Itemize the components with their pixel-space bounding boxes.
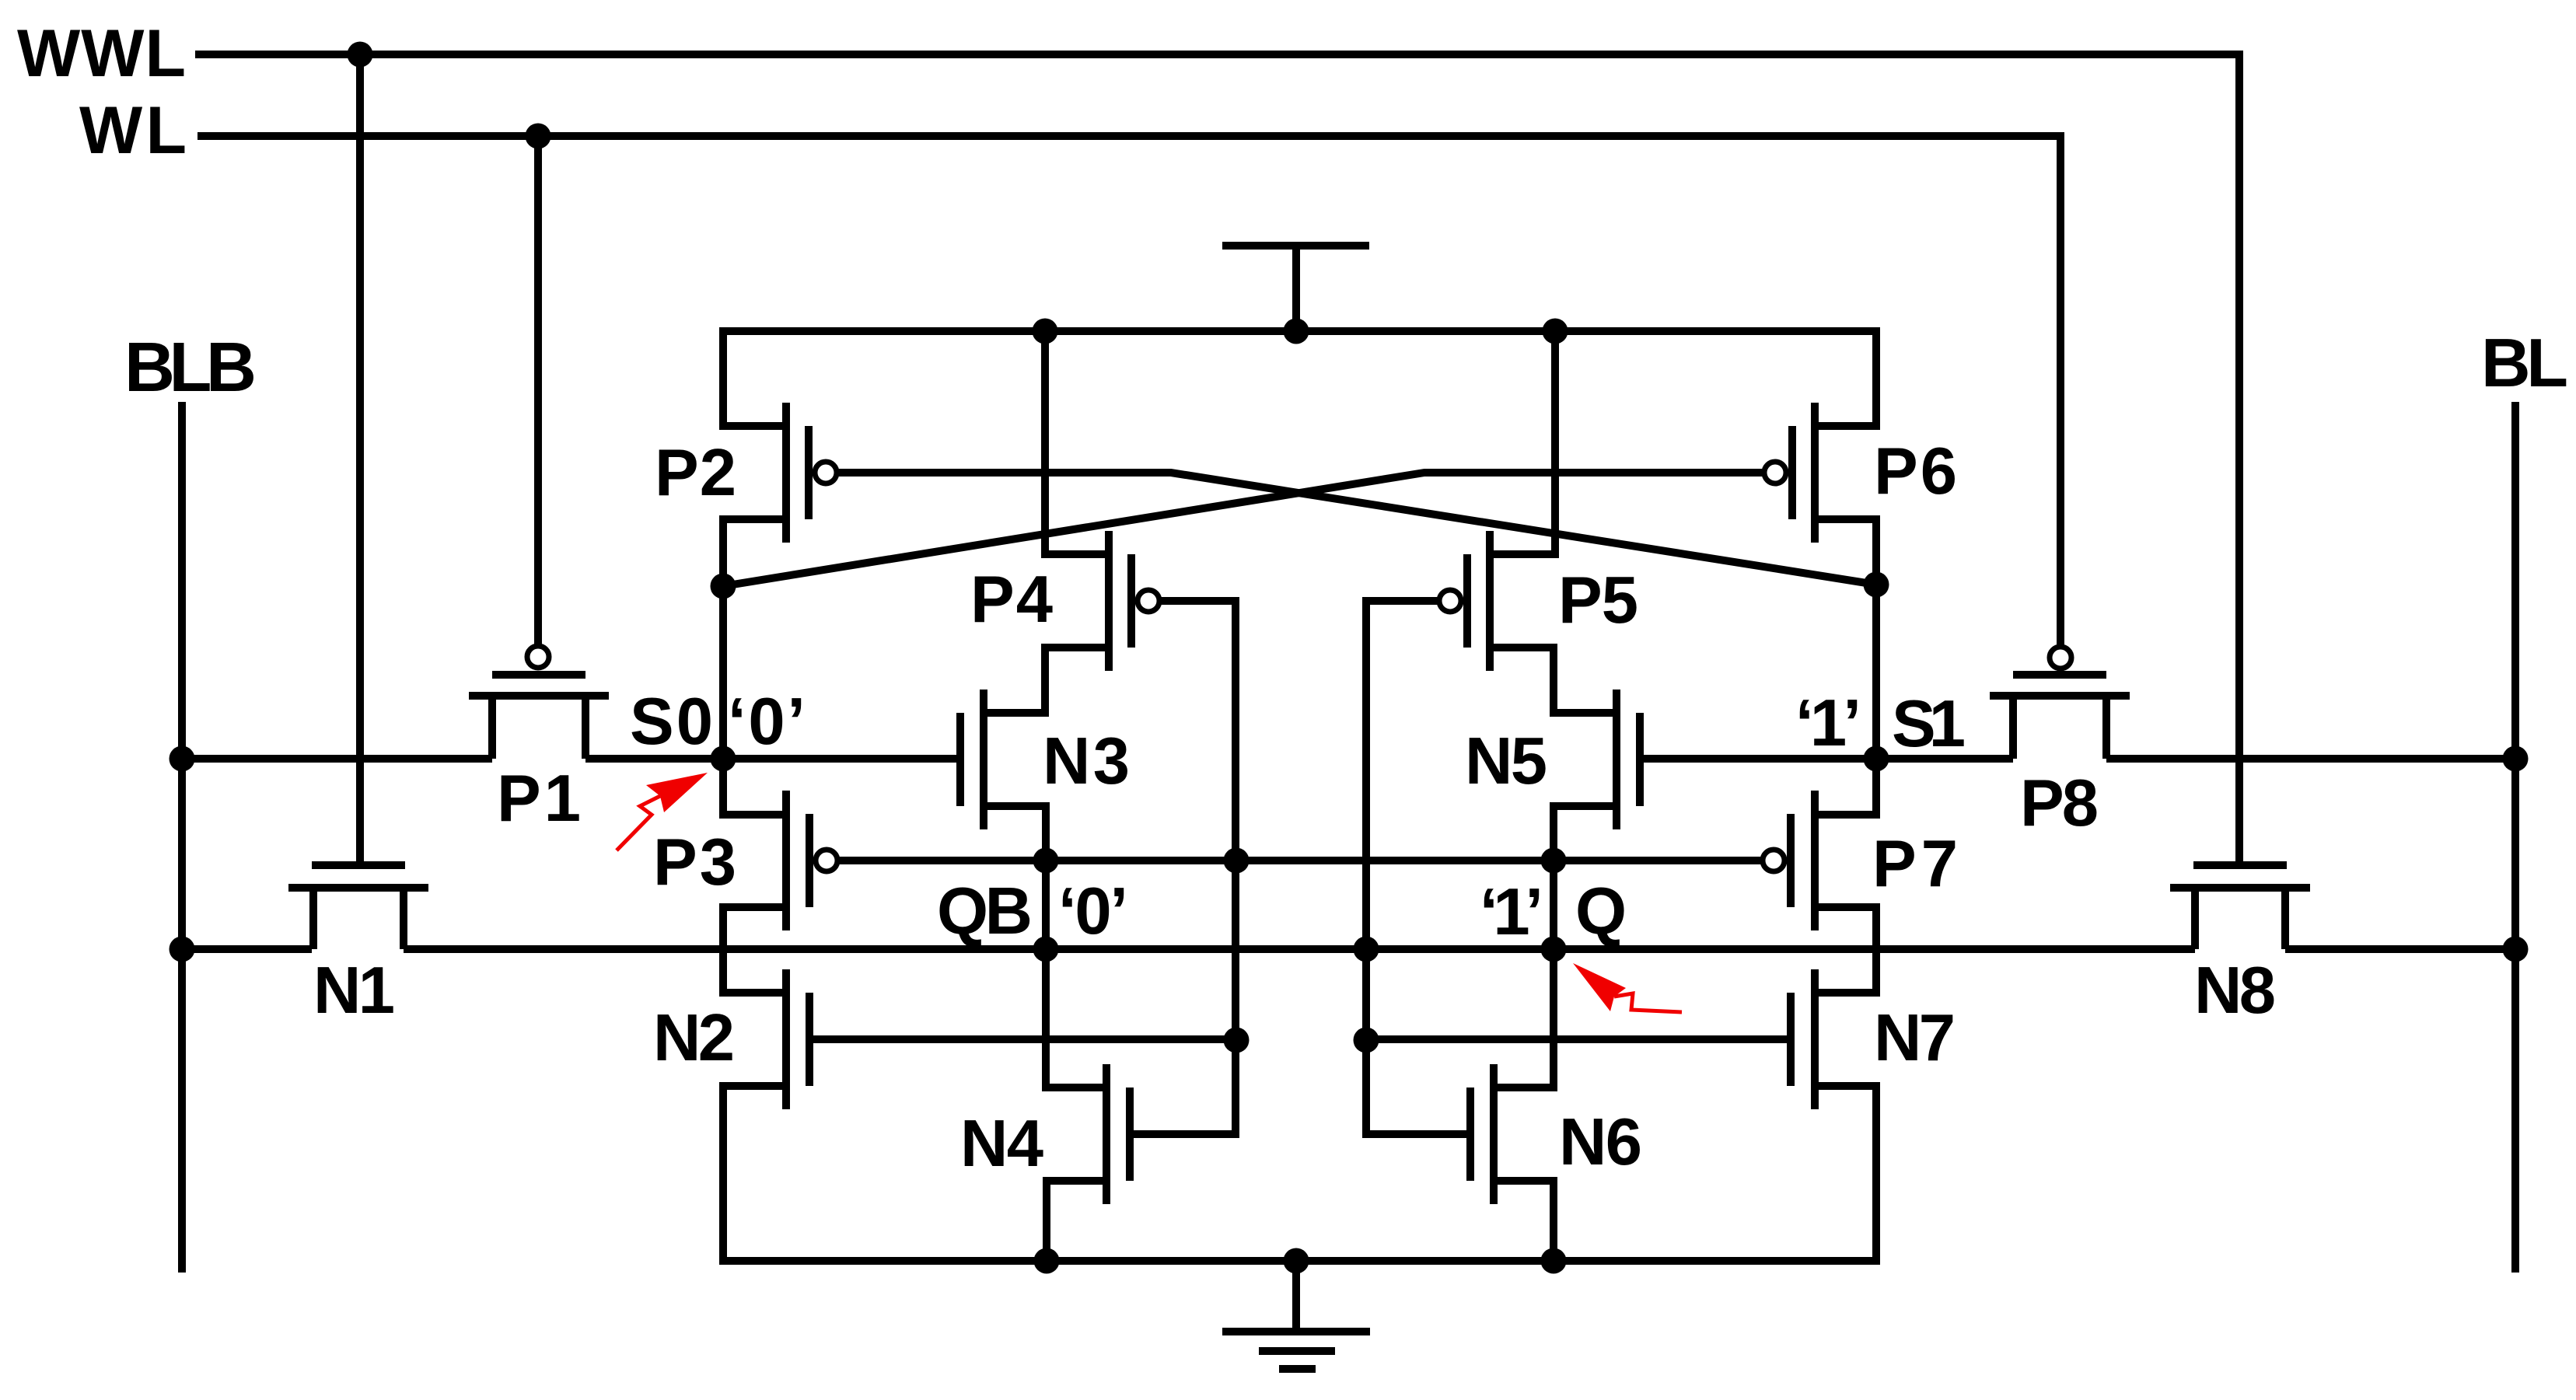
wire BLB bitline — [178, 402, 186, 1273]
svg-text:N8: N8 — [2194, 954, 2276, 1028]
wire P6 drain to S1 to P7 source — [1815, 519, 1876, 815]
svg-text:‘1’: ‘1’ — [1480, 875, 1543, 949]
wire BLB to P1 — [182, 755, 492, 763]
wire BLB to N1 — [182, 945, 312, 953]
svg-text:P8: P8 — [2020, 766, 2099, 840]
svg-text:N7: N7 — [1874, 1001, 1956, 1075]
transistor P3 — [786, 791, 809, 930]
junction rail-P5 — [1543, 319, 1568, 344]
node S0 — [711, 746, 736, 772]
junction P2 drain node — [711, 574, 736, 599]
soft error strike arrow at Q — [1573, 963, 1626, 1011]
junction WL-P1 — [526, 124, 551, 149]
wire N3 drain to QB node to N4 — [984, 806, 1106, 1088]
transistor N8 — [2170, 865, 2310, 949]
svg-text:‘0’: ‘0’ — [1058, 875, 1128, 948]
wire P3 drain to N2 source — [723, 907, 786, 993]
arrow tail zigzag at Q — [1614, 993, 1682, 1012]
transistor P1 — [469, 675, 609, 759]
wire P1 to S0 to N3 gate — [585, 755, 960, 763]
wire VDD rail to P4 source — [1045, 331, 1109, 554]
transistor N1 — [288, 865, 428, 949]
junction rail-VDD — [1284, 319, 1309, 344]
svg-text:Q: Q — [1575, 875, 1627, 948]
transistor P7 — [1791, 791, 1815, 930]
bubble P1 gate — [527, 646, 549, 668]
svg-text:‘0’: ‘0’ — [728, 685, 806, 759]
svg-text:P6: P6 — [1874, 435, 1957, 508]
wire P4 drain to N3 source — [984, 648, 1109, 713]
svg-text:‘1’: ‘1’ — [1795, 686, 1861, 760]
junction N4-ground rail — [1034, 1248, 1060, 1274]
junction P6 drain node — [1864, 572, 1889, 598]
wire N5 gate to S1 to P8 — [1640, 755, 2013, 763]
wire P2 drain to S0 to P3 source — [723, 519, 786, 815]
soft error strike arrow at S0 — [646, 773, 708, 812]
wire P5 gate to N6 gate — [1366, 601, 1470, 1134]
junction BL-Q row — [2503, 937, 2529, 962]
svg-text:P7: P7 — [1872, 827, 1958, 901]
transistor N6 — [1470, 1064, 1494, 1204]
transistor P6 — [1792, 403, 1815, 543]
wire P3 gate to P7 gate row — [837, 857, 1763, 864]
svg-text:WL: WL — [79, 93, 187, 168]
wire WWL — [195, 54, 2239, 865]
junction Q row center-right — [1354, 937, 1379, 962]
bubble P4 gate — [1138, 590, 1159, 612]
wire N2 gate — [809, 1035, 1236, 1043]
junction BLB-S0 row — [170, 746, 195, 772]
svg-text:N3: N3 — [1043, 724, 1130, 798]
wire P7 drain to N7 source — [1815, 907, 1876, 993]
svg-text:WWL: WWL — [17, 16, 186, 91]
junction BL-S1 row — [2503, 746, 2529, 772]
svg-text:P3: P3 — [653, 826, 736, 899]
svg-text:N6: N6 — [1559, 1105, 1642, 1179]
svg-text:P5: P5 — [1558, 564, 1638, 637]
junction BLB-Q row — [170, 937, 195, 962]
svg-text:P2: P2 — [655, 436, 736, 510]
wire VDD rail to P5 source — [1490, 331, 1555, 554]
transistor P4 — [1109, 531, 1131, 671]
svg-text:P4: P4 — [970, 563, 1053, 637]
junction P7 gate Q column — [1541, 848, 1567, 874]
wire N6 drain to ground rail — [1494, 1181, 1554, 1261]
bubble P8 gate — [2050, 647, 2071, 669]
wire N4 drain to ground rail — [1047, 1181, 1106, 1261]
wire WL — [197, 136, 2060, 648]
wire P6 gate cross couple to S0 — [723, 473, 1765, 586]
svg-text:N4: N4 — [960, 1107, 1043, 1181]
svg-text:BL: BL — [2481, 324, 2568, 401]
transistor P2 — [786, 403, 809, 543]
node S1 — [1864, 746, 1889, 772]
ground symbol — [1222, 1261, 1370, 1369]
wire P5 drain to N5 source — [1490, 648, 1617, 713]
svg-text:N5: N5 — [1465, 724, 1547, 798]
arrow tail zigzag at S0 — [617, 796, 660, 850]
wire P8 to BL — [2106, 755, 2515, 763]
power VDD symbol — [1222, 246, 1369, 331]
wire N8 to BL — [2285, 945, 2515, 953]
svg-text:BLB: BLB — [124, 329, 257, 407]
wire P2 gate cross couple to S1 — [837, 473, 1876, 585]
svg-text:P1: P1 — [497, 762, 581, 836]
wire VDD rail with P2 P6 source jogs — [723, 331, 1876, 426]
bubble P7 gate — [1763, 850, 1784, 871]
wire N7 gate — [1366, 1035, 1791, 1043]
junction N6-ground rail — [1541, 1248, 1567, 1274]
wire WWL to N1 gate — [356, 54, 364, 865]
svg-text:N2: N2 — [653, 1001, 735, 1075]
junction N7 gate node — [1354, 1028, 1379, 1053]
junction mid row center-left — [1224, 848, 1250, 874]
wire N1 to QB to Q row — [404, 945, 2195, 953]
svg-text:N1: N1 — [313, 954, 395, 1028]
transistor N4 — [1106, 1064, 1130, 1204]
junction GND stem — [1284, 1248, 1309, 1274]
junction WWL-N1 — [348, 42, 373, 68]
svg-text:S0: S0 — [630, 685, 713, 759]
transistor P5 — [1467, 531, 1490, 671]
transistor N7 — [1791, 969, 1815, 1109]
bubble P6 gate — [1764, 462, 1786, 484]
bubble P3 gate — [816, 850, 837, 871]
transistor N3 — [960, 690, 984, 829]
node QB — [1033, 937, 1059, 962]
transistor N2 — [786, 969, 809, 1109]
wire N5 drain to Q node to N6 — [1494, 806, 1617, 1088]
bubble P2 gate — [815, 462, 837, 484]
node Q — [1541, 937, 1567, 962]
bubble P5 gate — [1439, 590, 1461, 612]
svg-text:QB: QB — [937, 875, 1033, 948]
junction N2 gate node — [1224, 1028, 1250, 1053]
wire P4 gate to N4 gate — [1130, 601, 1236, 1134]
wire BL bitline — [2511, 402, 2519, 1273]
junction P3 gate QB column — [1033, 848, 1059, 874]
wire WL to P1 gate — [534, 136, 542, 647]
junction rail-P4 — [1033, 319, 1058, 344]
svg-text:S1: S1 — [1892, 687, 1966, 761]
wire ground rail with N2 N7 drains — [723, 1086, 1876, 1261]
transistor P8 — [1990, 675, 2130, 759]
transistor N5 — [1617, 690, 1640, 829]
